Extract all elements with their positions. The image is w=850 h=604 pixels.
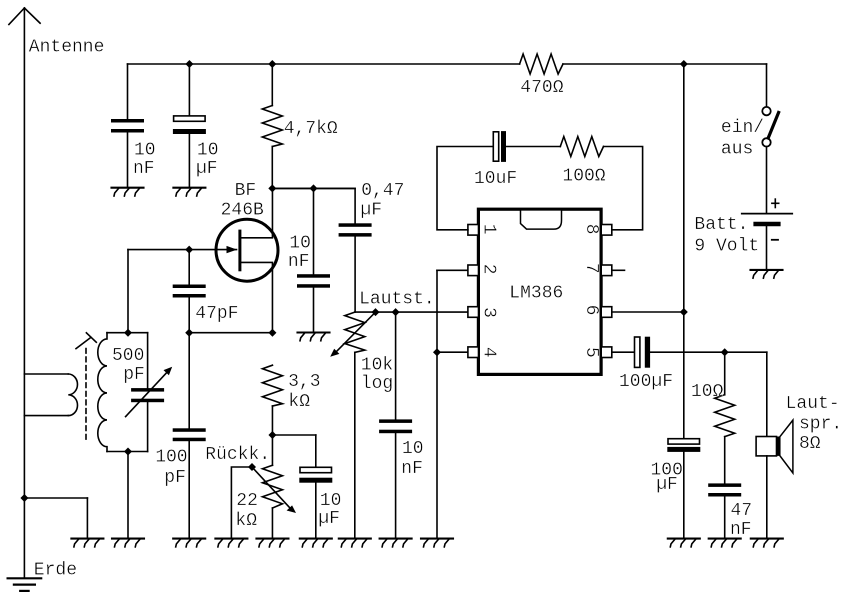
capacitor C7 10nF drain bypass [297,188,330,332]
switch S1 lever [768,113,778,139]
svg-text:8Ω: 8Ω [799,434,821,454]
capacitor C11 lead to ground [683,452,685,538]
resistor R1 4,7kΩ [262,64,282,188]
svg-text:47pF: 47pF [195,304,238,324]
svg-text:10: 10 [289,233,311,253]
potentiometer R4 10k log [345,312,365,538]
transistor Q1 gate bar [238,231,241,270]
battery BT1 negative plate [756,222,779,227]
potentiometer R3 wiper arrow [252,467,296,513]
svg-text:246B: 246B [221,201,264,221]
ground under C4 [173,539,205,547]
svg-text:7: 7 [581,263,601,274]
transformer T1 secondary bottom wire [107,451,148,453]
wire earth branch vertical [86,498,88,538]
transformer T1 secondary winding [98,333,107,452]
svg-text:µF: µF [318,509,340,529]
capacitor C1 10nF leads [127,64,129,187]
earth ground symbol Erde [8,578,42,591]
wire gate column down to tank [127,250,129,333]
svg-text:2: 2 [479,264,499,275]
capacitor C5 500pF plates [131,388,164,402]
ground under R4 [339,539,371,547]
node junction dot pin4 [433,348,441,356]
pin 6 square [601,307,612,318]
svg-text:Laut-: Laut- [786,394,840,414]
ground under R3 [256,539,288,547]
svg-text:Erde: Erde [34,560,77,580]
ground under pin2/4 column [421,539,453,547]
svg-text:6: 6 [581,305,601,316]
svg-text:aus: aus [721,140,753,160]
wire pot output to pin3 [355,311,468,313]
svg-text:Lautst.: Lautst. [359,290,435,310]
wire speaker branch down [766,352,768,436]
svg-text:kΩ: kΩ [235,511,257,531]
svg-text:10: 10 [197,141,219,161]
svg-text:47: 47 [731,501,753,521]
svg-text:10: 10 [402,439,424,459]
svg-text:3,3: 3,3 [288,372,320,392]
wire drain node rail [272,187,355,189]
svg-text:µF: µF [656,475,678,495]
svg-text:nF: nF [401,459,423,479]
node junction dot top rail at C2 [185,60,193,68]
switch S1 bottom contact [762,138,770,146]
svg-text:5: 5 [581,347,601,358]
ground under C11 [668,539,700,547]
ground under C6 [300,539,332,547]
capacitor C10 10uF feedback plates [493,131,506,162]
ground under battery [751,270,783,278]
capacitor C5 500pF variable leads [147,333,149,452]
transistor Q1 BF246B body circle [216,219,278,281]
battery BT1 lead to ground [766,226,768,269]
svg-text:8: 8 [581,224,601,235]
node junction dot antenna/earth [20,494,28,502]
svg-text:4,7kΩ: 4,7kΩ [284,119,338,139]
wire pin2/pin4 column [436,270,438,538]
wire C12 to speaker branch [650,351,767,353]
svg-text:100: 100 [155,448,187,468]
pin 1 square [468,225,479,236]
wire pin2 [437,269,468,271]
capacitor C3 47pF [173,250,206,429]
svg-text:BF: BF [235,181,257,201]
pin 7 square [601,265,612,276]
svg-text:ein/: ein/ [721,118,764,138]
svg-text:470Ω: 470Ω [520,78,563,98]
node junction dot R3 wiper [248,463,256,471]
svg-text:pF: pF [123,365,145,385]
op-amp U1 notch [521,211,562,229]
capacitor C13 47nF [708,483,741,538]
capacitor C11 100µF plates [667,439,700,452]
wire source feedback rail [189,332,272,334]
ground under C7 [298,333,330,341]
resistor R2 3,3kΩ [262,365,282,406]
wire R5 to pin8 [604,147,643,230]
node junction dot at C6 branch [268,431,276,439]
potentiometer R3 22kΩ [262,465,282,538]
capacitor C12 100µF output plates [635,337,651,368]
capacitor C2 10uF plates [173,116,206,134]
loudspeaker LS1 horn [780,420,793,473]
svg-text:Antenne: Antenne [29,38,105,58]
svg-text:Rückk.: Rückk. [205,445,270,465]
svg-text:0,47: 0,47 [361,181,404,201]
capacitor C6 10µF polarized leads [315,435,317,538]
node junction dot top rail at pin6 column [680,60,688,68]
svg-text:100Ω: 100Ω [562,166,605,186]
wire top supply rail left segment [128,63,520,65]
wire supply column [683,64,685,439]
ground under speaker [751,539,783,547]
loudspeaker LS1 bar [777,437,780,456]
transformer T1 secondary top wire [107,332,148,334]
transistor Q1 drain internal lead [240,188,273,237]
capacitor C9 10nF input shunt [379,312,412,538]
svg-text:9 Volt: 9 Volt [694,237,759,257]
capacitor C4 100pF [173,428,206,538]
capacitor C6 10µF plates [299,467,332,482]
svg-text:10k: 10k [361,356,393,376]
resistor R7 10Ω [715,352,735,483]
battery BT1 positive plate [742,213,792,215]
svg-text:500: 500 [112,346,144,366]
pin 5 square [601,347,612,358]
pin 3 square [468,307,479,318]
switch S1 top contact [762,107,770,115]
ground under C9 [380,539,412,547]
node junction dot gate at C3 [185,246,193,254]
pin 2 square [468,265,479,276]
svg-text:22: 22 [236,491,258,511]
battery minus sign [772,239,778,241]
wire gate [128,249,237,251]
wire switch to battery [766,147,768,214]
svg-text:nF: nF [133,159,155,179]
node junction dot C9 branch [392,308,400,316]
svg-text:nF: nF [730,520,752,540]
svg-text:µF: µF [196,159,218,179]
ground under R3 wiper [215,539,247,547]
transistor Q1 gate arrow [227,246,238,253]
capacitor C2 10uF polarized leads [188,64,190,187]
antenna symbol [9,8,40,577]
svg-text:µF: µF [360,201,382,221]
transformer T1 adjustable core tick [76,333,96,349]
svg-text:10uF: 10uF [474,169,517,189]
node junction dot R7 branch [721,348,729,356]
battery plus sign [772,199,779,207]
transformer T1 primary top wire [24,373,68,375]
wire speaker to ground [766,456,768,538]
switch S1 wire from rail [766,64,768,107]
wire tank bottom to ground [127,452,129,539]
svg-text:nF: nF [288,252,310,272]
ground under C2 [173,188,205,196]
loudspeaker LS1 coil box [756,437,776,456]
wire pin1 to feedback loop [437,147,493,230]
capacitor C8 0,47µF [272,188,371,312]
op-amp U1 LM386 body [478,209,601,374]
pin 8 square [601,225,612,236]
wire source column between R2 and R3 [271,406,273,465]
transformer T1 primary bottom wire [24,415,68,417]
svg-text:pF: pF [164,468,186,488]
svg-text:100µF: 100µF [619,372,673,392]
pin 4 square [468,347,479,358]
svg-text:log: log [361,374,393,394]
potentiometer R4 wiper arrow [330,312,375,357]
node junction dot tank bottom [124,448,132,456]
node junction dot at source column [268,329,276,337]
transformer T1 core dashed line [85,349,87,442]
svg-text:10Ω: 10Ω [691,382,724,402]
wire earth branch horizontal [24,497,87,499]
resistor R5 100Ω [560,137,603,157]
node junction dot tank top [124,329,132,337]
node junction dot drain at C7 [310,184,318,192]
svg-text:1: 1 [479,224,499,235]
ground under C1 [112,188,144,196]
svg-text:LM386: LM386 [509,284,563,304]
wire R3 wiper to ground [231,467,252,537]
wire pin7 stub [612,269,625,271]
svg-text:3: 3 [479,307,499,318]
node junction dot at C3 column [185,329,193,337]
svg-text:10: 10 [134,141,156,161]
ground left earth branch [71,539,103,547]
svg-text:kΩ: kΩ [288,392,310,412]
wire pin6 to supply column [612,311,684,313]
ground under tank [112,539,144,547]
svg-text:4: 4 [479,347,499,358]
ground under C13 [709,539,741,547]
svg-text:spr.: spr. [799,415,842,435]
resistor R6 470Ω [520,54,563,74]
transformer T1 primary winding [68,374,77,416]
capacitor C1 10nF plates [111,119,144,133]
node junction dot drain at R1 [268,184,276,192]
wire pin5 to C12 [612,351,635,353]
capacitor C5 variable arrow [126,367,173,417]
wire to C6 [272,434,315,436]
transistor Q1 source internal lead [240,262,273,332]
node junction dot wiper [372,308,380,316]
node junction dot pin6 [680,308,688,316]
wire top supply rail right segment [563,63,767,65]
svg-text:Batt.: Batt. [694,215,748,235]
wire C10 to R5 [506,146,560,148]
node junction dot top rail at R1 [268,60,276,68]
wire pin4 [437,351,468,353]
